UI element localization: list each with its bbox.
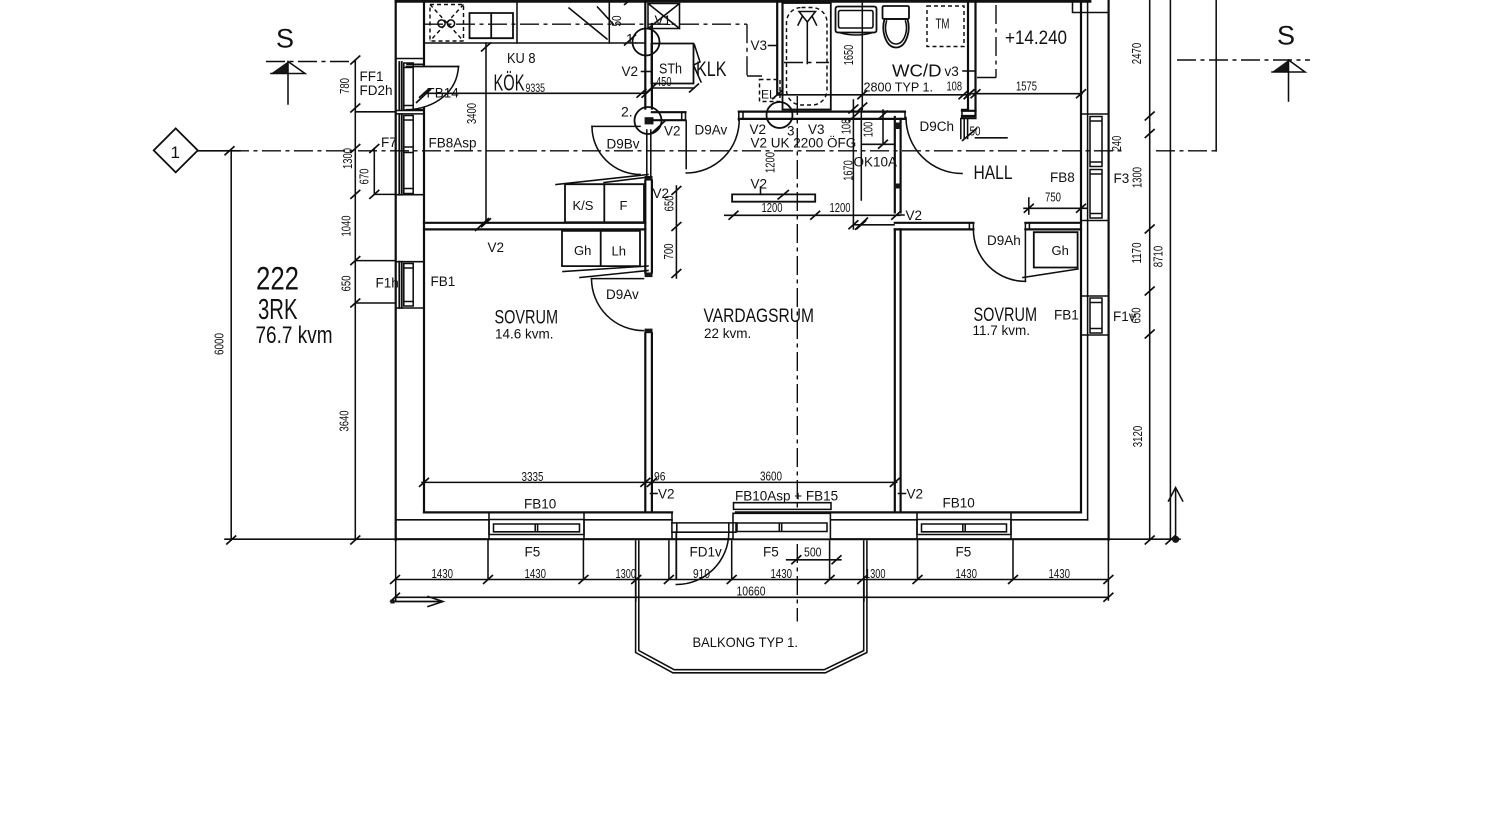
svg-text:1670: 1670 (842, 160, 856, 181)
svg-text:100: 100 (862, 122, 876, 138)
svg-text:F5: F5 (763, 545, 779, 560)
counter stove (470, 13, 514, 38)
electrical cabinet EL dashed (760, 80, 781, 102)
svg-text:22 kvm.: 22 kvm. (704, 326, 751, 341)
svg-text:V2: V2 (664, 124, 681, 139)
dim 1650 bath (857, 0, 867, 112)
kitchen / sovrum1 wall (424, 223, 645, 230)
svg-text:V2: V2 (658, 487, 675, 502)
svg-text:D9Av: D9Av (695, 123, 728, 138)
svg-text:1430: 1430 (771, 567, 793, 581)
svg-text:v3: v3 (945, 64, 959, 79)
svg-text:FD1v: FD1v (690, 545, 723, 560)
dim 108/1670 hall (848, 100, 866, 229)
door FB14 leaf and swing (407, 64, 459, 110)
svg-text:V2: V2 (907, 487, 924, 502)
svg-text:1200: 1200 (762, 201, 783, 215)
kitchen-vardagsrum wall (central vertical) (645, 0, 653, 512)
svg-text:S: S (1277, 21, 1295, 51)
svg-text:3600: 3600 (760, 470, 782, 484)
svg-text:F3: F3 (1114, 171, 1130, 186)
axis line 1 (horizontal dash-dot) (198, 150, 1122, 152)
svg-text:76.7 kvm: 76.7 kvm (256, 322, 333, 349)
svg-text:+14.240: +14.240 (1005, 27, 1067, 49)
svg-text:D9Av: D9Av (606, 287, 639, 302)
window F5 sovrum 1 (489, 514, 584, 540)
svg-text:D9Bv: D9Bv (607, 137, 640, 152)
svg-text:KLK: KLK (696, 58, 727, 81)
dim line kitchen depth 3400 (481, 43, 491, 228)
right wall segment joints (1081, 114, 1109, 335)
right exterior wall inner face (1080, 2, 1082, 512)
svg-text:650: 650 (340, 275, 354, 291)
svg-text:6000: 6000 (213, 333, 227, 355)
overhead cabinet OK10A (861, 109, 895, 200)
svg-text:V3: V3 (751, 38, 768, 53)
svg-text:F7: F7 (381, 135, 397, 150)
right dim chain 1 (1145, 0, 1155, 545)
svg-text:TM: TM (936, 17, 950, 33)
svg-text:10660: 10660 (737, 585, 766, 599)
svg-text:222: 222 (256, 261, 299, 297)
bottom exterior wall outer face (396, 538, 1109, 540)
svg-text:F5: F5 (956, 545, 972, 560)
dim 50 door D9Ch (962, 128, 1007, 141)
svg-text:S: S (276, 24, 294, 54)
svg-text:700: 700 (662, 243, 676, 259)
dim 3335 sovrum1 (419, 478, 650, 487)
radiator shelf vardagsrum (732, 187, 815, 202)
door D9Av to sovrum 1 leaf and swing (592, 279, 644, 331)
counter drainer diagonal (569, 7, 614, 39)
north arrow at plan base (391, 597, 444, 607)
dim 650/700 vardagsrum west (671, 186, 681, 278)
svg-text:670: 670 (358, 168, 372, 184)
svg-text:V2: V2 (488, 240, 505, 255)
dim 450 klk (647, 84, 700, 93)
dim 500 balcony door (787, 555, 842, 564)
svg-text:3120: 3120 (1131, 426, 1145, 448)
door marker circle 3 (767, 102, 793, 128)
ventilation box V1 (648, 4, 680, 29)
svg-text:WC/D: WC/D (892, 61, 942, 81)
dim 2800 wc/d (772, 90, 973, 99)
svg-text:Lh: Lh (612, 244, 626, 259)
svg-text:3640: 3640 (338, 410, 352, 431)
svg-text:11.7 kvm.: 11.7 kvm. (973, 323, 1031, 338)
svg-text:FB8Asp: FB8Asp (429, 136, 477, 151)
svg-text:1300: 1300 (865, 567, 886, 581)
KLK ceiling-height dash-dot line (424, 24, 762, 76)
svg-text:910: 910 (693, 567, 710, 581)
svg-text:FB1: FB1 (1054, 308, 1079, 323)
svg-text:96: 96 (654, 470, 666, 484)
svg-text:Gh: Gh (574, 243, 591, 258)
kitchen counter dividers (517, 2, 609, 43)
WC/D right wall (962, 0, 976, 116)
window F5 sovrum 2 (917, 514, 1011, 540)
building centre axis (vertical dash-dot) (796, 96, 798, 622)
svg-text:V2: V2 (622, 64, 639, 79)
balcony outline (636, 541, 867, 673)
svg-text:OK10A: OK10A (854, 155, 898, 170)
svg-text:750: 750 (1045, 191, 1061, 205)
svg-text:1040: 1040 (340, 215, 354, 236)
svg-text:1: 1 (171, 143, 180, 162)
counter dim 50 tick (624, 0, 636, 46)
left dim chain A extensions (355, 112, 395, 303)
left exterior wall inner face (423, 2, 425, 512)
bottom dim extension lines (396, 540, 1109, 602)
svg-text:FB8: FB8 (1050, 170, 1075, 185)
svg-text:1.: 1. (626, 31, 638, 47)
svg-text:450: 450 (656, 75, 672, 89)
svg-text:8710: 8710 (1152, 246, 1166, 268)
svg-text:HALL: HALL (974, 162, 1013, 184)
window F3 (1090, 117, 1102, 219)
hall / sovrum2 wall (895, 223, 1081, 230)
toilet (883, 6, 910, 48)
V2 tick hall south (855, 218, 868, 230)
svg-text:1575: 1575 (1016, 80, 1037, 94)
counter sink/dishwasher dashed box (430, 5, 464, 42)
right extensions (1109, 0, 1217, 539)
wardrobe K/S and F (556, 175, 649, 223)
svg-text:650: 650 (663, 195, 677, 211)
left dim chain A (350, 56, 360, 545)
V2 tick kitchen wall (475, 218, 489, 231)
room and fixture labels (171, 17, 1296, 651)
door marker circle 1 (633, 29, 660, 56)
axis marker diamond 1 (154, 128, 240, 172)
svg-text:108: 108 (947, 80, 963, 94)
hall north wall (KLK/bath south) (652, 111, 976, 120)
svg-text:KU 8: KU 8 (507, 50, 536, 67)
svg-text:FB1: FB1 (431, 274, 456, 289)
hall V2 opening extension line (855, 224, 894, 226)
dim 3600 vardagsrum (645, 478, 900, 487)
svg-text:3335: 3335 (522, 470, 544, 484)
svg-text:1430: 1430 (432, 567, 454, 581)
wardrobe Gh and Lh (562, 231, 648, 278)
svg-text:V2: V2 (751, 177, 768, 192)
svg-text:BALKONG TYP 1.: BALKONG TYP 1. (693, 634, 799, 650)
section line S right (1177, 59, 1310, 61)
svg-text:1170: 1170 (1130, 242, 1144, 263)
svg-text:1650: 1650 (842, 45, 856, 66)
cabinet STh (652, 44, 702, 84)
door D9Ch frame (961, 119, 968, 139)
svg-text:KÖK: KÖK (494, 70, 525, 96)
svg-text:9335: 9335 (526, 81, 546, 95)
balcony door FD1v threshold (672, 523, 736, 532)
vardagsrum / sovrum2 wall (895, 229, 901, 512)
window F1v (1090, 298, 1102, 333)
svg-text:V1: V1 (655, 13, 672, 28)
svg-text:50: 50 (610, 15, 624, 26)
right dim chain 2 (8710) (1165, 0, 1175, 545)
svg-text:1200: 1200 (830, 201, 851, 215)
hall / vardagsrum wall (894, 117, 901, 212)
svg-text:500: 500 (804, 546, 822, 560)
bathtub (783, 3, 831, 110)
svg-text:FB10: FB10 (524, 497, 556, 512)
svg-text:F1h: F1h (376, 276, 399, 291)
svg-text:F: F (620, 198, 628, 213)
svg-text:FB10Asp + FB15: FB10Asp + FB15 (735, 489, 838, 504)
svg-text:V2: V2 (906, 208, 923, 223)
section marker S right triangle (1272, 60, 1305, 101)
svg-text:FD2h: FD2h (360, 83, 393, 98)
svg-text:3400: 3400 (465, 103, 479, 124)
kitchen counter bottom edge (424, 42, 645, 44)
svg-text:14.6 kvm.: 14.6 kvm. (495, 327, 554, 342)
left dim line 6000 (225, 151, 396, 545)
svg-text:240: 240 (1110, 136, 1124, 152)
right wall up arrow with dot (1169, 488, 1183, 543)
window F1h (399, 262, 413, 308)
svg-text:K/S: K/S (573, 198, 594, 213)
bottom dimension chain line 2 (10660) (390, 593, 1113, 602)
balcony door FD1v leaf and swing (676, 532, 729, 584)
right exterior wall outer face (1107, 0, 1109, 540)
svg-text:1200: 1200 (764, 152, 778, 173)
wash basin (836, 7, 877, 36)
svg-text:VARDAGSRUM: VARDAGSRUM (704, 306, 815, 327)
door D9Bv leaf and swing (592, 126, 640, 174)
svg-text:F5: F5 (525, 545, 541, 560)
svg-text:50: 50 (970, 125, 981, 139)
washing machine TM dashed (927, 6, 964, 47)
right wall top corner notch (1073, 0, 1109, 13)
right exterior wall mid line (1087, 2, 1089, 520)
KLK / bathroom wall (777, 0, 782, 95)
svg-text:1430: 1430 (956, 567, 978, 581)
door marker circle 2 (645, 117, 654, 124)
wardrobe Gh sovrum 2 (1023, 232, 1078, 277)
bottom wall jambs at balcony door (672, 512, 736, 539)
svg-text:D9Ah: D9Ah (987, 233, 1021, 248)
svg-text:FB10: FB10 (943, 496, 975, 511)
dim 750 hall (1024, 198, 1087, 214)
left exterior wall outer face (395, 0, 397, 540)
door D9Ah leaf and swing (973, 229, 1025, 281)
rotated dimension numbers (213, 15, 1166, 447)
left sub dim 670 (369, 144, 379, 199)
svg-text:Gh: Gh (1052, 243, 1069, 258)
svg-text:V2 UK 2200 ÖFG: V2 UK 2200 ÖFG (751, 136, 857, 151)
bottom exterior wall mid line (396, 519, 1088, 521)
door D9Ch swing (906, 118, 962, 174)
svg-text:FF1: FF1 (360, 69, 384, 84)
dim 100 OK10A (878, 110, 888, 149)
dim 1200 1200 vardagsrum (725, 211, 902, 220)
svg-text:2.: 2. (621, 104, 633, 120)
window F7 (399, 114, 413, 195)
left wall segment joints (396, 59, 424, 309)
svg-text:650: 650 (1130, 307, 1144, 323)
svg-text:D9Ch: D9Ch (920, 119, 955, 134)
window FF1/FD2h (399, 62, 413, 110)
section marker S left triangle (271, 62, 305, 105)
svg-text:1300: 1300 (341, 148, 355, 169)
svg-text:SOVRUM: SOVRUM (495, 308, 559, 329)
svg-text:FB14: FB14 (427, 86, 460, 101)
svg-text:1430: 1430 (525, 567, 547, 581)
svg-text:780: 780 (338, 78, 352, 94)
svg-text:108: 108 (840, 119, 854, 135)
window F5 balcony with sill FB10Asp+FB15 (733, 503, 831, 540)
dimension numbers (432, 75, 1071, 599)
section line S left (266, 61, 356, 63)
bottom dimension chain line 1 (390, 575, 1113, 584)
bottom exterior wall inner face (424, 511, 1081, 513)
dim 1575 hall alcove (965, 89, 1087, 98)
svg-text:1300: 1300 (1131, 167, 1145, 188)
hall alcove dash-dot line (976, 5, 996, 78)
svg-text:1300: 1300 (616, 567, 637, 581)
svg-text:2470: 2470 (1130, 43, 1144, 65)
svg-text:EL: EL (761, 88, 776, 102)
svg-text:2800 TYP 1.: 2800 TYP 1. (864, 81, 934, 95)
door D9Av to vardagsrum leaf and swing (686, 120, 739, 173)
svg-text:1430: 1430 (1049, 567, 1071, 581)
small labels (360, 13, 1136, 560)
top exterior wall (396, 0, 1090, 3)
dim line kitchen 9335 (419, 89, 652, 98)
